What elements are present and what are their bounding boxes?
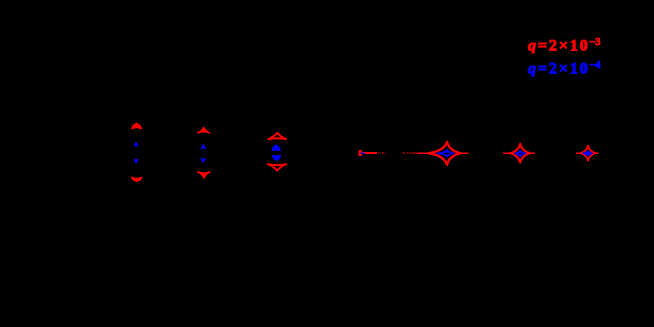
second blue caustic inner hole: [519, 153, 522, 154]
group3 red upper planetary caustic (hollow): [268, 133, 286, 139]
wide-left red bar: [362, 152, 372, 154]
wide-left small red caustic bracket: [359, 150, 362, 156]
group3 blue upper planetary caustic: [272, 145, 280, 150]
group2 blue upper planetary caustic: [201, 145, 205, 149]
third caustic right stub: [596, 153, 599, 154]
mask over q descender (blue legend): [526, 77, 539, 82]
third blue caustic: [583, 151, 592, 156]
legend blue q=2e-4: [528, 61, 600, 78]
central blue caustic: [437, 150, 454, 157]
second blue caustic: [515, 150, 526, 156]
second red astroid caustic: [510, 144, 530, 163]
group2 red lower planetary caustic: [198, 172, 210, 178]
group1 red lower planetary caustic: [132, 177, 142, 181]
second caustic left dash: [503, 153, 509, 155]
group3 blue lower planetary caustic: [273, 156, 281, 161]
central caustic right tail: [461, 152, 469, 154]
central blue caustic inner hole: [444, 153, 451, 155]
group2 red upper planetary caustic: [198, 127, 210, 132]
group1 blue upper planetary caustic: [134, 143, 138, 146]
group1 blue lower planetary caustic: [134, 160, 138, 163]
group2 blue lower planetary caustic: [201, 158, 205, 162]
red dashed axis segments: [378, 152, 380, 153]
second caustic right tail: [531, 153, 535, 155]
third red astroid caustic: [581, 146, 595, 161]
legend red q=2e-3: [528, 38, 600, 55]
group3 red lower planetary caustic (hollow): [268, 164, 287, 170]
central caustic left tail: [417, 152, 429, 154]
group1 red upper planetary caustic: [132, 123, 142, 129]
mask over q descender (red legend): [526, 54, 539, 59]
wide-left bracket notch: [360, 153, 361, 155]
central red astroid caustic: [429, 142, 461, 165]
third caustic left stub: [576, 153, 581, 154]
wide-left blue dash: [361, 153, 365, 155]
